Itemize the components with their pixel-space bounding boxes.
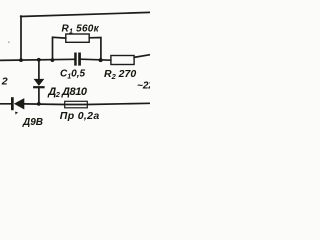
fuse Pr 0.2A body — [65, 101, 88, 108]
capacitor C1 left plate — [74, 53, 77, 66]
wire R2 right lead to edge — [134, 55, 150, 58]
wire left vertical from top rail to mid rail — [20, 16, 22, 60]
wire fuse to right edge — [87, 103, 150, 104]
scan speck faint — [8, 41, 10, 43]
svg-text:Пр 0,2а: Пр 0,2а — [60, 110, 100, 122]
junction node at top-left drop — [19, 58, 23, 62]
svg-text:Д9В: Д9В — [22, 117, 43, 128]
resistor R2 body — [111, 56, 134, 65]
capacitor C1 right plate — [78, 53, 81, 66]
junction node zener top — [37, 58, 41, 62]
svg-text:С10,5: С10,5 — [60, 68, 85, 80]
svg-text:R2 270: R2 270 — [104, 68, 136, 81]
diode D9V cathode bar — [11, 97, 14, 110]
wire bottom rail left edge to diode — [0, 103, 11, 105]
resistor R1 body — [66, 34, 89, 42]
junction node R1 left leg — [51, 58, 55, 62]
wire R1 left lead — [53, 37, 66, 60]
wire mid rail from C1 to R2 — [81, 59, 111, 60]
zener diode D2 bottom lead — [38, 88, 40, 104]
zener diode D2 triangle — [34, 79, 45, 86]
junction node zener bottom — [37, 102, 41, 106]
wire R1 right lead — [89, 38, 101, 61]
wire diode to fuse — [24, 103, 65, 106]
svg-text:R1 560к: R1 560к — [62, 24, 100, 36]
svg-text:~22: ~22 — [137, 80, 150, 91]
svg-text:2: 2 — [1, 76, 8, 88]
zener diode D2 top lead — [38, 60, 40, 79]
scan speck — [15, 112, 18, 115]
junction node R1 right leg — [99, 58, 103, 62]
svg-text:Д2 Д810: Д2 Д810 — [47, 86, 88, 99]
diode D9V triangle — [14, 98, 24, 109]
wire through fuse — [65, 104, 88, 106]
zener diode D2 cathode bar — [33, 86, 45, 88]
wire top output rail — [21, 12, 150, 16]
wire mid rail from left edge to C1 — [0, 59, 74, 60]
